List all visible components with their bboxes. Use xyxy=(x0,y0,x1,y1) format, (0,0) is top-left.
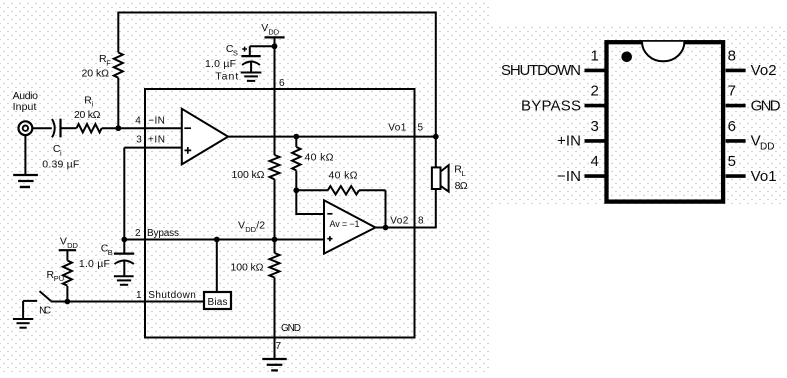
node 40k junction xyxy=(293,134,299,140)
DIP label VDD xyxy=(751,133,775,153)
svg-text:F: F xyxy=(106,58,111,67)
pinout dotted background xyxy=(489,26,787,204)
svg-text:BYPASS: BYPASS xyxy=(521,97,581,114)
label CS plus xyxy=(242,47,247,52)
resistor 40k vertical xyxy=(292,137,300,191)
resistor 100k upper xyxy=(270,155,280,179)
wire: Ci to Ri xyxy=(62,127,77,129)
wire: jack to Ci xyxy=(32,127,52,129)
svg-text:Av = −1: Av = −1 xyxy=(330,219,360,229)
svg-text:40 kΩ: 40 kΩ xyxy=(329,170,358,182)
op-amp U2 plus xyxy=(327,236,332,241)
svg-text:1.0 µF: 1.0 µF xyxy=(205,58,236,70)
svg-text:Vo2: Vo2 xyxy=(751,62,777,79)
resistor 40k feedback horizontal xyxy=(296,186,385,227)
DIP pin 3 stub xyxy=(585,139,606,143)
svg-text:0.39 µF: 0.39 µF xyxy=(42,159,79,171)
svg-text:1: 1 xyxy=(136,290,142,301)
DIP pin 5 stub xyxy=(726,174,746,178)
op-amp U1 minus xyxy=(184,127,191,129)
schematic dotted background xyxy=(0,0,489,372)
label CB xyxy=(101,243,113,257)
svg-text:6: 6 xyxy=(279,78,285,89)
svg-text:DD: DD xyxy=(67,241,78,250)
pin 2 label xyxy=(135,228,179,239)
svg-text:+IN: +IN xyxy=(557,133,581,150)
DIP pin 4 stub xyxy=(585,174,606,178)
label VDD/2 xyxy=(238,220,265,234)
svg-text:PU: PU xyxy=(54,274,64,283)
bias box xyxy=(204,292,231,309)
op-amp U2 xyxy=(324,200,375,253)
svg-text:8: 8 xyxy=(728,48,736,65)
svg-text:Input: Input xyxy=(13,101,37,113)
label RL xyxy=(454,164,465,178)
wire: Vo2 output xyxy=(375,227,435,229)
DIP pin 8 stub xyxy=(726,69,746,73)
svg-text:S: S xyxy=(233,48,238,57)
resistor RF xyxy=(114,12,123,129)
wire: +IN (pin 3) xyxy=(124,148,182,240)
ground (CB) xyxy=(114,276,134,285)
DIP package body xyxy=(607,42,724,201)
svg-text:Tant: Tant xyxy=(215,71,238,83)
capacitor CS xyxy=(241,46,274,72)
svg-text:20 kΩ: 20 kΩ xyxy=(74,109,101,121)
svg-text:V: V xyxy=(261,22,268,34)
svg-text:Shutdown: Shutdown xyxy=(148,290,196,301)
svg-text:L: L xyxy=(462,169,466,178)
audio input jack xyxy=(19,121,33,135)
svg-text:DD: DD xyxy=(760,142,774,153)
svg-text:8Ω: 8Ω xyxy=(455,180,468,192)
svg-text:B: B xyxy=(108,248,113,257)
svg-text:DD: DD xyxy=(245,225,256,234)
svg-text:4: 4 xyxy=(590,153,598,170)
svg-text:4: 4 xyxy=(135,116,141,127)
node shutdown junction xyxy=(65,299,71,305)
svg-text:GND: GND xyxy=(281,323,301,334)
wire: bypass VDD/2 xyxy=(124,239,324,241)
svg-text:1.0 µF: 1.0 µF xyxy=(79,258,110,270)
svg-text:3: 3 xyxy=(136,134,142,145)
svg-text:20 kΩ: 20 kΩ xyxy=(82,68,110,80)
label RPU xyxy=(47,269,65,283)
label GND pin 7 xyxy=(276,323,302,352)
svg-text:Bias: Bias xyxy=(208,297,228,308)
power VDD top xyxy=(261,22,284,46)
svg-text:Vo1: Vo1 xyxy=(388,123,406,134)
svg-text:Vo1: Vo1 xyxy=(751,168,777,185)
wire: -IN (pin 4) xyxy=(102,127,182,129)
wire: shutdown (pin 1) xyxy=(67,301,204,303)
svg-text:DD: DD xyxy=(268,27,279,36)
resistor Ri xyxy=(77,124,102,132)
label Ci xyxy=(53,143,62,157)
svg-text:V: V xyxy=(60,236,67,248)
wire: op-amp U2 minus input xyxy=(296,190,324,214)
svg-text:7: 7 xyxy=(276,341,282,352)
switch shutdown xyxy=(23,291,67,319)
op-amp U2 minus xyxy=(327,213,332,215)
IC boundary box xyxy=(145,89,415,338)
svg-text:2: 2 xyxy=(590,83,598,100)
ground (CS) xyxy=(241,73,262,81)
wire: bias link xyxy=(216,240,218,293)
DIP pin 6 stub xyxy=(726,139,746,143)
DIP pin1 dot xyxy=(621,52,632,63)
label RF xyxy=(99,53,111,67)
node Vo1/rail xyxy=(433,134,439,140)
ground (input jack) xyxy=(13,135,38,187)
svg-text:GND: GND xyxy=(751,97,781,114)
node Vo2 feedback xyxy=(383,225,389,231)
node bypass/CB xyxy=(121,237,127,243)
label Ri xyxy=(84,94,93,108)
wire: VDD rail pin6 to pin7 xyxy=(274,46,276,359)
svg-text:2: 2 xyxy=(135,228,141,239)
pin 1 label xyxy=(136,290,196,301)
svg-text:+IN: +IN xyxy=(148,134,165,145)
DIP pin 7 stub xyxy=(726,104,746,108)
wire: Vo1 output xyxy=(228,136,436,138)
svg-text:6: 6 xyxy=(728,118,736,135)
svg-text:8: 8 xyxy=(418,215,424,226)
node VDD junction xyxy=(272,43,278,49)
svg-text:5: 5 xyxy=(418,123,424,134)
label Vo1 pin 5 xyxy=(388,123,423,134)
op-amp U1 plus xyxy=(185,147,192,154)
node bias tap xyxy=(214,237,220,243)
DIP pin 2 stub xyxy=(585,104,606,108)
ground (pin 7) xyxy=(262,359,286,370)
node: Ri/RF junction xyxy=(115,125,121,131)
resistor RPU xyxy=(63,261,72,302)
pin 4 label xyxy=(135,116,165,127)
svg-text:7: 7 xyxy=(728,83,736,100)
svg-text:SHUTDOWN: SHUTDOWN xyxy=(501,62,581,79)
svg-text:−IN: −IN xyxy=(557,168,581,185)
svg-text:100 kΩ: 100 kΩ xyxy=(231,262,264,274)
svg-text:NC: NC xyxy=(39,306,51,317)
wire: speaker right rail xyxy=(435,12,437,229)
node divider mid xyxy=(272,237,278,243)
capacitor Ci xyxy=(52,119,61,138)
power VDD pullup xyxy=(59,236,79,261)
svg-text:1: 1 xyxy=(590,48,598,65)
svg-text:5: 5 xyxy=(728,153,736,170)
svg-text:Vo2: Vo2 xyxy=(390,215,408,226)
capacitor CB xyxy=(114,240,134,276)
DIP pin 1 stub xyxy=(585,69,606,73)
svg-text:40 kΩ: 40 kΩ xyxy=(305,151,334,163)
op-amp U1 xyxy=(182,109,228,165)
node feedback junction xyxy=(293,187,299,193)
label Audio Input xyxy=(13,90,39,113)
wire: feedback top xyxy=(118,12,436,14)
DIP notch xyxy=(642,42,684,62)
speaker RL xyxy=(432,165,449,191)
svg-text:3: 3 xyxy=(590,118,598,135)
svg-text:/2: /2 xyxy=(256,220,265,232)
svg-text:Bypass: Bypass xyxy=(147,228,179,239)
resistor 100k lower xyxy=(270,253,280,278)
svg-text:−IN: −IN xyxy=(148,116,165,127)
svg-text:V: V xyxy=(238,220,245,232)
label Vo2 pin 8 xyxy=(390,215,424,226)
pin 3 label xyxy=(136,134,165,145)
label CS xyxy=(226,43,238,57)
ground (switch) xyxy=(13,319,33,328)
svg-text:100 kΩ: 100 kΩ xyxy=(232,169,265,181)
